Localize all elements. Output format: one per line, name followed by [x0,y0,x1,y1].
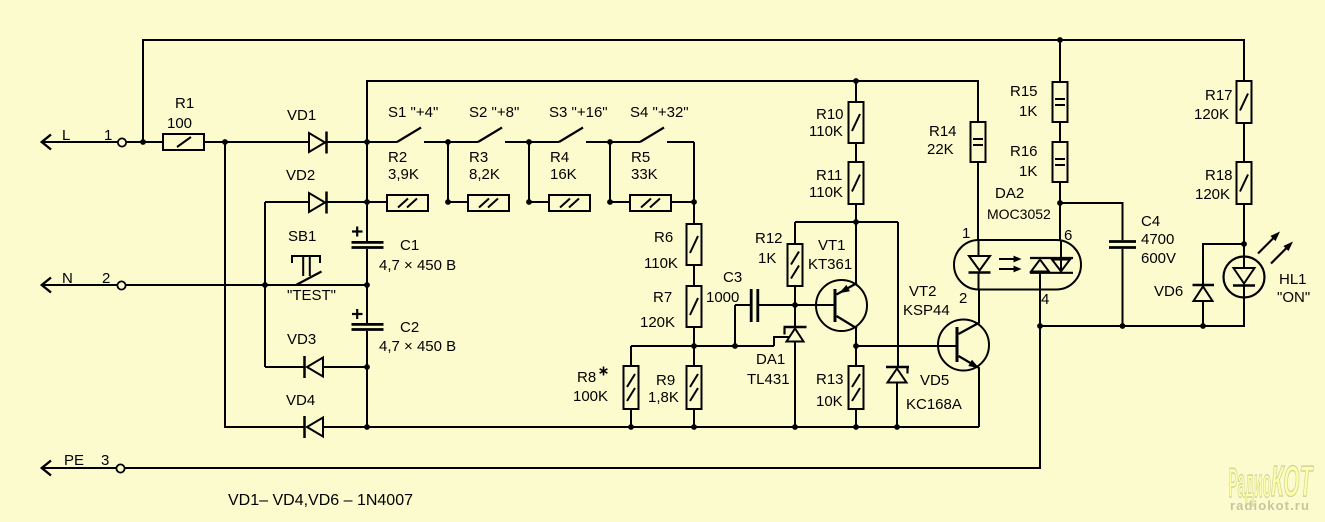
label VD1 [287,107,316,124]
svg-text:4: 4 [1041,291,1049,308]
label R18 [1205,167,1233,184]
label C4 value 4700 [1141,231,1174,248]
wire bottom rail [367,426,979,428]
label VD5 type [906,396,962,413]
label R1 [175,95,194,112]
label R6 value [644,255,678,272]
svg-text:R3: R3 [469,149,488,166]
junction node at x143 on L line [140,139,146,145]
junction node VT1 collector [853,343,859,349]
svg-text:600V: 600V [1141,250,1176,267]
svg-text:1K: 1K [758,250,776,267]
wire second bus: vertical x367 down to R2 row, across to R14 [367,81,978,203]
capacitor C4 [1109,242,1136,327]
wire R7 to node row346 [693,327,695,346]
svg-text:R15: R15 [1010,83,1038,100]
junction node SB1 left on N line [262,282,268,288]
svg-text:R12: R12 [755,230,783,247]
label C1 [400,237,419,254]
label R7 [653,289,672,306]
wire node row y346 [631,345,774,347]
svg-text:S3 "+16": S3 "+16" [549,104,608,121]
wire R16 node down to opto pin6 [1059,203,1061,240]
svg-text:120K: 120K [1195,186,1230,203]
label R8 value [573,388,608,405]
svg-text:R11: R11 [816,167,842,184]
label R5 value [631,166,658,183]
svg-text:R18: R18 [1205,167,1233,184]
note diode types [228,492,413,509]
wire node row y222 [795,221,898,223]
junction node C4 bottom [1120,323,1126,329]
svg-text:N: N [62,270,73,287]
junction node DA1 bottom on rail [792,424,798,430]
svg-text:VD1– VD4,VD6 – 1N4007: VD1– VD4,VD6 – 1N4007 [228,492,413,509]
svg-text:4700: 4700 [1141,231,1174,248]
svg-text:4,7 × 450 В: 4,7 × 450 В [379,338,456,355]
svg-text:"TEST": "TEST" [287,287,336,304]
junction node resistor row x610 [607,199,613,205]
svg-text:120K: 120K [640,314,675,331]
diode VD6 [1193,244,1245,326]
label R17 value [1194,106,1229,123]
label VT1 [818,237,846,254]
svg-text:1K: 1K [1019,163,1037,180]
label R12 [755,230,783,247]
terminal PE arrow [42,461,116,476]
svg-text:R14: R14 [929,123,957,140]
label SB1 [288,228,316,245]
opto light arrows [999,256,1022,273]
label R1 value 100 [167,115,192,132]
label R10 value [809,123,843,140]
diode VD1 [309,132,367,154]
resistor R17 [1237,40,1252,123]
label VD5 [920,372,949,389]
wire R5 to R6 column [671,201,694,203]
svg-text:DA2: DA2 [995,185,1024,202]
svg-text:R2: R2 [388,149,407,166]
label TEST [287,287,336,304]
label DA2 [995,185,1024,202]
resistor R7 [687,265,702,327]
svg-text:110K: 110K [809,123,843,140]
label L [62,127,70,144]
svg-text:110K: 110K [809,184,843,201]
junction node switch row x448 [445,139,451,145]
label R9 value [648,389,679,406]
resistor R1 [163,134,204,150]
junction node after R1 [222,139,228,145]
label C3 [723,269,742,286]
optocoupler DA2 MOC3052 body [954,240,1081,290]
junction node pin4 on y326 line [1037,323,1043,329]
junction node VD1 right x367 [364,139,370,145]
junction node R9 bottom on rail [691,424,697,430]
resistor R14 [971,122,986,240]
wire R1 to VD1 [204,141,309,143]
wire N node to C2 [366,285,368,323]
wire N circle to C column [126,284,367,286]
svg-text:16K: 16K [550,166,577,183]
terminal L circle [118,138,126,146]
label pin 2 [102,270,110,287]
svg-text:VT2: VT2 [909,283,937,300]
label C4 value 600V [1141,250,1176,267]
svg-text:100K: 100K [573,388,608,405]
junction node VD2 right x367 [364,199,370,205]
wire L circle to R1 [127,141,164,143]
junction node R16 bottom [1057,200,1063,206]
switch S2 [448,128,529,143]
label R11 [816,167,842,184]
label R6 [654,229,673,246]
junction node VD5 bottom on rail [894,424,900,430]
junction node R10 top on second bus [853,78,859,84]
resistor R16 [1053,122,1068,203]
svg-text:C2: C2 [400,319,419,336]
label VD3 [287,331,316,348]
switch S4 [610,128,694,143]
resistor R2 [367,195,428,211]
svg-text:radiokot.ru: radiokot.ru [1230,498,1310,513]
terminal N arrow [42,278,117,293]
svg-text:KT361: KT361 [808,256,852,273]
label S2 [469,104,519,121]
resistor R13 [849,346,864,427]
resistor R12 [788,222,803,305]
label VD2 [286,167,315,184]
terminal L arrow [42,135,118,150]
wire VT1 collector to VT2 base [856,345,956,347]
svg-text:VD1: VD1 [287,107,316,124]
junction node R8 bottom on rail [628,424,634,430]
svg-text:L: L [62,127,70,144]
wire opto pin2 to VT2 collector [978,290,980,323]
capacitor C1 polarized [352,227,384,248]
resistor R6 [687,202,702,265]
svg-text:R8: R8 [577,369,596,386]
label R4 [550,149,569,166]
label R16 value [1019,163,1037,180]
label C1 value [379,257,456,274]
junction node VT1 base node [792,302,798,308]
svg-text:C1: C1 [400,237,419,254]
label pin 3 [101,452,109,469]
svg-text:1: 1 [104,127,112,144]
lamp HL1 LED [1224,244,1265,326]
junction node R7 bottom [691,343,697,349]
svg-text:S2 "+8": S2 "+8" [469,104,519,121]
label R5 [631,149,650,166]
label C3 value [706,289,739,306]
junction node VD3 right [364,364,370,370]
svg-text:C4: C4 [1141,213,1160,230]
label VT1 type KT361 [808,256,852,273]
capacitor C3 [735,289,795,346]
junction node switch row x610 [607,139,613,145]
resistor R3 [448,195,509,211]
svg-text:100: 100 [167,115,192,132]
junction node VD6 bottom [1200,323,1206,329]
label DA2 type MOC3052 [987,206,1051,222]
label R10 [816,106,844,123]
regulator DA1 TL431 [774,305,807,427]
label R14 value [927,141,954,158]
label R3 value [469,166,500,183]
label DA1 [756,351,785,368]
svg-text:10K: 10K [816,393,843,410]
label VD6 [1154,283,1183,300]
switch S1 [367,128,448,143]
opto internal triac [1030,240,1073,290]
label R3 [469,149,488,166]
terminal PE circle [116,464,124,472]
svg-text:R5: R5 [631,149,650,166]
transistor VT1 KT361 [795,222,867,346]
opto internal LED [969,256,991,290]
label R12 value [758,250,776,267]
zener VD5 KC168A [886,367,909,427]
svg-text:KSP44: KSP44 [903,302,950,319]
label R8 [577,369,596,386]
svg-text:120K: 120K [1194,106,1229,123]
label C4 [1141,213,1160,230]
svg-text:R16: R16 [1010,143,1038,160]
watermark RadioKOT [1229,458,1314,513]
svg-text:KC168A: KC168A [906,396,962,413]
pushbutton SB1 [265,256,367,285]
svg-text:3: 3 [101,452,109,469]
svg-text:2: 2 [102,270,110,287]
svg-text:R6: R6 [654,229,673,246]
label S1 [388,104,438,121]
junction node R15 top on top bus [1057,37,1063,43]
svg-text:1K: 1K [1019,103,1037,120]
label N [62,270,73,287]
wire C column to bottom rail [366,367,368,427]
label opto pin 6 [1064,227,1072,244]
svg-text:C3: C3 [723,269,742,286]
svg-text:R1: R1 [175,95,194,112]
label S3 [549,104,608,121]
label R14 [929,123,957,140]
wire vertical x265 VD2 to VD3 [264,202,266,367]
label DA1 type TL431 [747,371,790,388]
junction node resistor row x448 [445,199,451,205]
label R13 [816,371,844,388]
diode VD2 [265,192,387,214]
wire C column upper [366,202,368,241]
svg-text:R10: R10 [816,106,844,123]
svg-text:R13: R13 [816,371,844,388]
wire C2 to VD3 row [366,331,368,367]
label R15 [1010,83,1038,100]
svg-text:6: 6 [1064,227,1072,244]
label R16 [1010,143,1038,160]
label R11 value [809,184,843,201]
junction node resistor row x529 [526,199,532,205]
wire PE line to opto pin4 column [125,326,1040,468]
label R7 value [640,314,675,331]
wire S4 to R6 column corner [693,142,695,202]
svg-text:4,7 × 450 В: 4,7 × 450 В [379,257,456,274]
svg-text:VT1: VT1 [818,237,846,254]
svg-text:VD5: VD5 [920,372,949,389]
lamp HL1 light arrows [1258,232,1293,264]
junction node above HL1 [1241,241,1247,247]
svg-text:S1 "+4": S1 "+4" [388,104,438,121]
label R15 value [1019,103,1037,120]
label R9 [656,372,675,389]
wire link x610 switch row to resistor row [609,142,611,202]
wire link x529 switch row to resistor row [528,142,530,202]
transistor VT2 KSP44 [938,290,989,427]
label R18 value [1195,186,1230,203]
wire VD5 column from y222 node [897,222,899,366]
capacitor C2 polarized [352,309,384,330]
svg-text:R17: R17 [1205,87,1233,104]
svg-text:R7: R7 [653,289,672,306]
svg-text:1: 1 [962,225,970,242]
junction node VD4 right on rail [364,424,370,430]
junction node R5 right [691,199,697,205]
svg-text:8,2K: 8,2K [469,166,500,183]
junction node R11 bottom [853,219,859,225]
label R17 [1205,87,1233,104]
label opto pin 2 [959,290,967,307]
svg-text:110K: 110K [644,255,678,272]
svg-text:22K: 22K [927,141,954,158]
svg-text:SB1: SB1 [288,228,316,245]
opto LED pin1 lead [978,240,980,256]
svg-text:HL1: HL1 [1279,271,1307,288]
resistor R18 [1237,123,1252,244]
svg-text:33K: 33K [631,166,658,183]
wire top bus from L-line up and across to R17 [143,40,1244,143]
junction node N at C column [364,282,370,288]
svg-text:TL431: TL431 [747,371,790,388]
svg-text:R4: R4 [550,149,569,166]
svg-text:MOC3052: MOC3052 [987,206,1051,222]
switch S3 [529,128,610,143]
svg-text:S4 "+32": S4 "+32" [630,104,689,121]
wire vertical x225 down to VD4 row [225,142,304,427]
svg-text:1,8K: 1,8K [648,389,679,406]
resistor R9 [687,346,702,427]
label opto pin 4 [1041,291,1049,308]
label R8 asterisk [600,367,608,376]
diode VD4 [305,416,368,438]
label HL1 [1279,271,1307,288]
junction node switch row x529 [526,139,532,145]
label VT2 type KSP44 [903,302,950,319]
label VT2 [909,283,937,300]
label R2 value [388,166,419,183]
terminal N circle [117,281,125,289]
resistor R15 [1053,40,1068,122]
wire C1 to N node [366,249,368,285]
svg-text:DA1: DA1 [756,351,785,368]
label VD4 [286,392,315,409]
label C2 [400,319,419,336]
resistor R11 [849,143,864,222]
svg-text:VD3: VD3 [287,331,316,348]
svg-text:3,9K: 3,9K [388,166,419,183]
svg-text:VD6: VD6 [1154,283,1183,300]
label opto pin 1 [962,225,970,242]
diode VD3 [265,356,367,378]
label HL1 ON [1277,289,1310,306]
resistor R5 [610,195,671,211]
resistor R8 [624,346,639,427]
wire lamp bottom line y326 [1040,297,1244,326]
svg-text:2: 2 [959,290,967,307]
svg-text:PE: PE [64,452,84,469]
label PE [64,452,84,469]
svg-text:R9: R9 [656,372,675,389]
svg-text:VD2: VD2 [286,167,315,184]
svg-text:1000: 1000 [706,289,739,306]
wire link x448 switch row to resistor row [447,142,449,202]
label pin 1 [104,127,112,144]
wire opto pin4 down [1039,290,1041,326]
label R4 value [550,166,577,183]
svg-text:"ON": "ON" [1277,289,1310,306]
junction node C3 left tap [732,343,738,349]
label C2 value [379,338,456,355]
junction node R13 bottom on rail [853,424,859,430]
svg-text:VD4: VD4 [286,392,315,409]
resistor R10 [849,81,864,143]
resistor R4 [529,195,590,211]
wire R16 node to C4 [1060,203,1123,240]
label S4 [630,104,689,121]
label R13 value [816,393,843,410]
label R2 [388,149,407,166]
